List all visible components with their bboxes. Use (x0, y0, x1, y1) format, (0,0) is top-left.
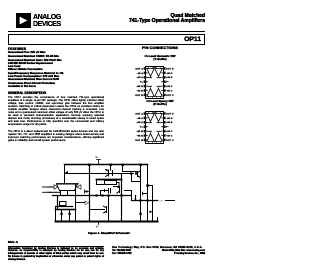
node OUTPUT terminal (159, 201, 175, 203)
caption (44, 231, 174, 235)
svg-text:V–: V– (96, 225, 100, 229)
wire y186.5 link (114, 186, 120, 188)
wire y179.5 left hook (97, 180, 105, 185)
wire y206.5 thick (56, 206, 73, 208)
DIP2 left pins 1-7 (144, 112, 147, 141)
junction base rail / Q13 base (135, 172, 137, 174)
transistor Q10 bumps on x121.5 (117, 186, 120, 193)
input IN- terminal (43, 185, 59, 189)
junction output x140.5 (139, 199, 141, 201)
transistor Q9 PNP mirror (85, 190, 90, 193)
wire x108.5 drop (108, 196, 110, 222)
wire y193.5 base stub (143, 192, 148, 194)
transistor Q1/Q2 top bar (57, 183, 78, 185)
wire x152.5 output emitter drop (152, 186, 154, 222)
wire output line (132, 200, 158, 202)
inner connection bars (148, 78, 162, 87)
rule under header (8, 31, 205, 32)
wire V+ rail (65, 164, 148, 166)
junction y195.5 x96.5 (95, 194, 97, 196)
transistor Q3 emitter arrow right side (77, 185, 81, 189)
transistor Q7 emitter with dot (68, 210, 70, 222)
inner pin stubs (146, 114, 163, 140)
wire base rail y173.5 (65, 173, 134, 175)
wire R5 right lead (117, 183, 120, 187)
DIP2 op-amp D triangle (155, 114, 162, 122)
capacitor C1 (105, 189, 111, 194)
wire y190.5 hook to x131.5 (125, 191, 132, 201)
transistor Q6 emitter with dot (60, 210, 62, 222)
DIP2 package body (146, 112, 164, 144)
junction V+ rail / x89 (88, 164, 91, 167)
DIP1 op-amp C triangle (155, 89, 162, 97)
junction V+ rail / Q13 (140, 164, 143, 167)
DIP2 right pin labels (166, 113, 174, 141)
transistor Q11 (106, 165, 113, 177)
DIP package 1 (130, 64, 192, 102)
DIP1 right pin labels (166, 68, 174, 96)
DIP1 left pins 1-7 (144, 67, 147, 96)
transistor Q17 (104, 206, 107, 213)
junction y195.5 x108.5 (107, 194, 109, 196)
DIP2 left pin labels (135, 112, 143, 141)
inner pin stubs (146, 69, 163, 95)
wire V- rail (56, 221, 158, 223)
svg-text:OUT: OUT (159, 201, 164, 203)
DIP1 package body (146, 67, 164, 99)
wire x131 drop to y181 (132, 174, 141, 182)
wire y209.5 mid segment (90, 209, 105, 211)
DIP2 op-amp A triangle (147, 114, 154, 122)
OP11 bar (8, 34, 205, 46)
wire upper base link y171.5 (123, 165, 138, 172)
wire Q1 base drop x57.5 (57, 196, 59, 210)
wire left edge drop x64.5 (64, 165, 66, 184)
wire y190.5 stub (101, 191, 105, 196)
node V+ terminal (95, 155, 100, 164)
junction base rail / x131 (130, 172, 132, 174)
transistor Q8 PNP emitter arrow (65, 171, 68, 174)
wire x140.5 vertical (140, 165, 142, 222)
transistor Q4 right leg x75.5 (75, 184, 77, 222)
junction V+ rail / Q11 (110, 164, 113, 167)
junction output x147.5 (146, 199, 148, 201)
junction y195.5 x102.5 (101, 194, 103, 196)
transistor Q14 base arrow (148, 185, 153, 187)
node V- terminal (96, 222, 100, 229)
junction y195.5 x121.5 (120, 194, 122, 196)
wire x135.5 drop (135, 196, 137, 201)
wire thick bar y179.5 (97, 179, 122, 181)
inner connection bars (148, 123, 162, 132)
resistor R5 (horizontal box) (105, 181, 117, 185)
wire x89.5 main vertical (89, 165, 91, 222)
DIP1 left pin labels (135, 67, 143, 96)
wire left edge x55.5 (55, 207, 57, 222)
input IN+ terminal (43, 192, 60, 194)
junction V+ rail / x122.5 (122, 164, 125, 167)
DIP1 notch (153, 67, 157, 68)
wire Q1 leg x60.5 (60, 191, 62, 196)
DIP1 right pins 8-14 (163, 67, 166, 96)
DIP1 op-amp A triangle (147, 69, 154, 77)
DIP1 op-amp B triangle (147, 89, 154, 97)
transistor Q20 arrow into rail (150, 210, 153, 213)
transistor Q16 emitter arrow into x89.5 (77, 201, 89, 205)
transistor Q13 (138, 171, 141, 179)
transistor Q1/Q2 input trapezoid (57, 184, 78, 191)
DIP2 op-amp B triangle (147, 134, 154, 142)
wire y209.5 thick (56, 209, 76, 211)
DIP2 notch (153, 112, 157, 113)
wire x147.5 vertical (147, 165, 149, 222)
transistor Q5 body box (60, 202, 67, 206)
junction x147.5 y185.5 (146, 184, 149, 187)
wire Q2 leg x67.5 (67, 191, 69, 196)
DIP2 op-amp C triangle (155, 134, 162, 142)
wire y195.5 mid rail (53, 195, 132, 197)
wire x121.5 vertical (121, 174, 123, 222)
DIP2 right pins 8-14 (163, 112, 166, 141)
svg-text:V+: V+ (95, 155, 99, 159)
wire rail end hook x157.5 (157, 218, 159, 222)
DIP package 2 (130, 109, 192, 147)
DIP1 op-amp D triangle (155, 69, 162, 77)
resistor R9 dot on x140.5 (139, 213, 141, 215)
